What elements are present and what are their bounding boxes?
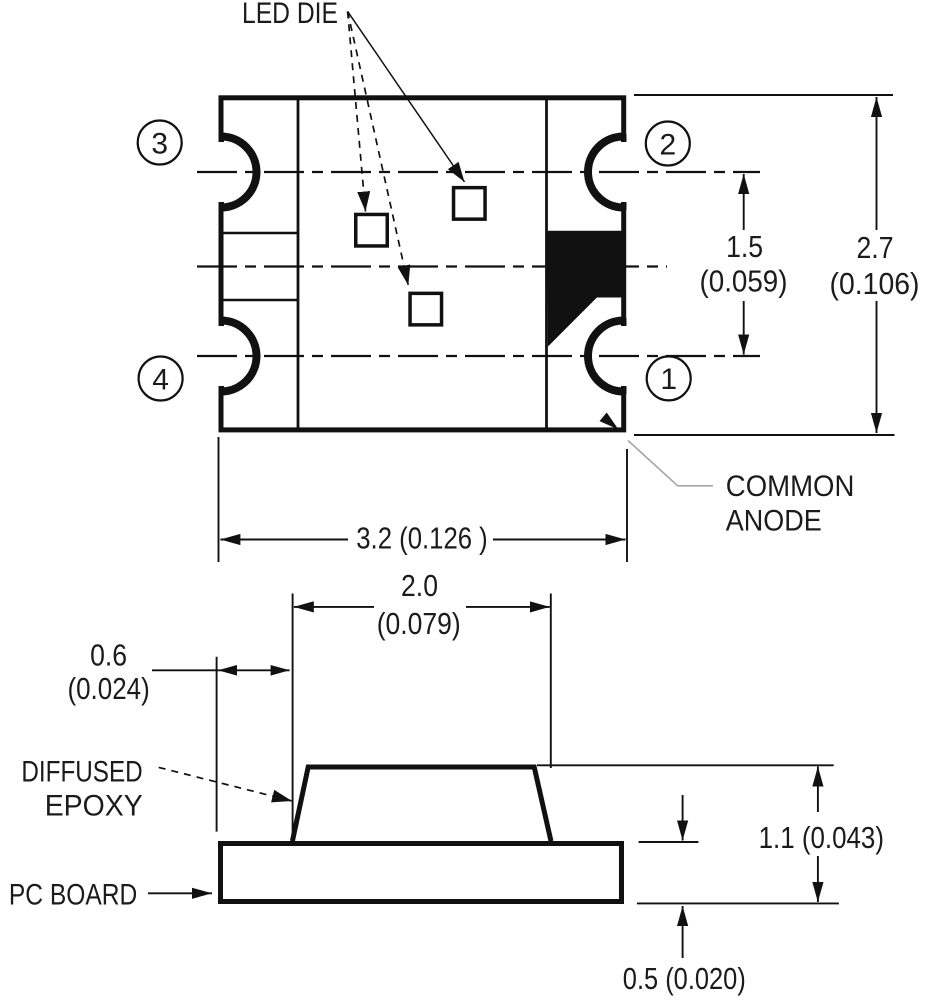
svg-text:2: 2 <box>659 128 676 161</box>
svg-text:0.5 (0.020): 0.5 (0.020) <box>623 961 746 996</box>
svg-text:DIFFUSED: DIFFUSED <box>21 756 142 789</box>
svg-text:0.6: 0.6 <box>90 638 127 673</box>
svg-text:(0.024): (0.024) <box>67 671 149 706</box>
svg-text:2.0: 2.0 <box>401 568 438 603</box>
svg-text:3: 3 <box>151 127 168 160</box>
svg-text:(0.059): (0.059) <box>700 264 788 299</box>
svg-text:COMMON: COMMON <box>726 470 855 503</box>
svg-text:4: 4 <box>152 363 169 396</box>
svg-text:(0.079): (0.079) <box>377 606 461 641</box>
svg-text:PC BOARD: PC BOARD <box>9 879 137 912</box>
svg-text:3.2 (0.126 ): 3.2 (0.126 ) <box>356 521 488 556</box>
svg-text:1.5: 1.5 <box>726 229 763 264</box>
svg-text:(0.106): (0.106) <box>830 266 920 301</box>
svg-text:ANODE: ANODE <box>726 504 822 537</box>
svg-text:1.1 (0.043): 1.1 (0.043) <box>759 820 884 855</box>
svg-text:2.7: 2.7 <box>857 230 894 265</box>
svg-text:1: 1 <box>660 363 677 396</box>
svg-text:LED DIE: LED DIE <box>242 0 338 30</box>
svg-text:EPOXY: EPOXY <box>45 790 143 823</box>
